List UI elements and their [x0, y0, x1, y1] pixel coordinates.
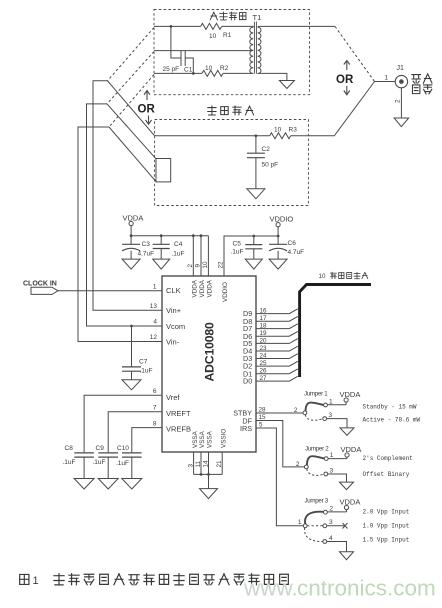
svg-text:3: 3 [187, 464, 194, 468]
wire solid diagonal Vcom to termination block [107, 104, 156, 159]
svg-text:4.7uF: 4.7uF [288, 249, 305, 256]
svg-text:20: 20 [260, 337, 268, 344]
svg-text:C9: C9 [96, 445, 105, 452]
svg-text:C8: C8 [65, 445, 74, 452]
svg-text:22: 22 [218, 261, 225, 269]
wire Vin- bottom (R2 lead) [154, 72, 202, 74]
wire J1 pin 2 to ground [395, 88, 402, 118]
wire R1 to T1 primary top [222, 25, 254, 28]
wire data D1 pin 26 [256, 369, 298, 374]
svg-text:VSSIO: VSSIO [220, 429, 227, 448]
svg-text:6: 6 [153, 388, 157, 395]
capacitor C9 .1uF [93, 445, 119, 479]
capacitor C1 25 pF [163, 26, 194, 73]
ground jumper1 [340, 428, 354, 436]
wire data D8 pin 17 [256, 316, 298, 321]
connector J1 input [375, 65, 408, 88]
connector CLOCK IN [23, 281, 58, 295]
wire Vref pin 6 [84, 395, 162, 453]
svg-text:C4: C4 [174, 241, 183, 248]
ground C10 [122, 479, 142, 490]
svg-text:2.0 Vpp Input: 2.0 Vpp Input [363, 509, 410, 516]
capacitor C10 .1uF [116, 445, 142, 479]
svg-text:Vin-: Vin- [166, 338, 180, 347]
svg-text:Jumper 2: Jumper 2 [305, 446, 329, 453]
wire CLOCK IN to CLK pin 1 [58, 290, 162, 292]
wire dashed OR link T1 to J1 [335, 26, 375, 81]
node junction VDDA pin2 [192, 234, 195, 237]
svg-text:9: 9 [195, 264, 202, 268]
wire VREFT pin 7 [108, 412, 162, 453]
ground C6 [269, 259, 287, 269]
svg-text:OR: OR [138, 104, 156, 116]
power VDDA terminal (Jumper 3) [340, 498, 361, 512]
power VDDIO terminal [270, 215, 294, 245]
svg-text:Vcom: Vcom [166, 322, 185, 331]
svg-text:10: 10 [274, 127, 282, 134]
wire VSSIO pin 21 [221, 452, 223, 474]
resistor R3 10 [270, 127, 297, 139]
wire data D9 pin 16 [256, 309, 298, 314]
svg-text:C6: C6 [288, 240, 297, 247]
svg-text:Vref: Vref [166, 393, 180, 402]
wire Vcom corner vertical [87, 104, 163, 326]
svg-text:8: 8 [153, 420, 157, 427]
svg-text:VDDIO: VDDIO [270, 215, 294, 224]
svg-text:21: 21 [216, 460, 223, 468]
svg-text:26: 26 [260, 368, 268, 375]
svg-text:D0: D0 [243, 377, 252, 386]
power VDDA terminal [123, 214, 144, 245]
wire OR link single-ended rail to Vin+ corner [93, 81, 162, 310]
wire VSSA pin 3 [193, 452, 195, 474]
wire jumper3 pin2 to VDDA [327, 511, 346, 513]
svg-text:1: 1 [330, 452, 334, 459]
svg-text:5: 5 [259, 422, 263, 429]
svg-text:Standby - 15 mW: Standby - 15 mW [363, 404, 417, 411]
jumper J1 (Jumper 1 STBY select) [294, 391, 333, 421]
wire single-ended input rail [155, 135, 270, 137]
wire VSSA pin 11 [200, 452, 202, 474]
svg-text:CLOCK IN: CLOCK IN [23, 281, 57, 288]
wire data D5 pin 20 [256, 339, 298, 344]
svg-text:3: 3 [329, 412, 333, 419]
wire VDDA pin 9 [200, 236, 202, 276]
wire IRS pin 5 [256, 428, 303, 526]
wire STBY pin 28 [256, 412, 303, 414]
node junction C4 tap [160, 234, 163, 237]
wire jumper1 pin1 to VDDA [327, 404, 346, 406]
svg-text:.1uF: .1uF [116, 460, 129, 467]
node junction C2 tap [255, 134, 258, 137]
svg-text:4.7uF: 4.7uF [138, 251, 155, 258]
svg-text:16: 16 [260, 308, 268, 315]
wire data D6 pin 19 [256, 331, 298, 336]
caption 图1 transformer single-ended to differential [20, 574, 289, 587]
node OR (input select left) [138, 91, 156, 125]
capacitor C4 .1uF [153, 236, 185, 259]
ground C3 [122, 259, 140, 269]
node OR (input select right) [336, 61, 354, 95]
wire data D7 pin 18 [256, 324, 298, 329]
wire solid diagonal corner to single-ended rail [108, 81, 155, 136]
wire VSSA pin 14 [208, 452, 210, 474]
wire DF pin 15 [256, 421, 305, 467]
svg-text:VDDA: VDDA [207, 279, 214, 297]
wire jumper1 pin3 to ground [327, 419, 347, 428]
ground T1 secondary [279, 81, 294, 89]
wire R2 to T1 primary bottom [223, 72, 253, 74]
wire VDDA pin 2 [192, 236, 194, 276]
svg-text:VDDIO: VDDIO [222, 282, 229, 302]
svg-text:10: 10 [202, 261, 209, 269]
svg-text:1.0 Vpp Input: 1.0 Vpp Input [363, 523, 410, 530]
svg-text:14: 14 [202, 460, 209, 468]
resistor R1 10 [201, 23, 232, 40]
svg-text:Vin+: Vin+ [166, 306, 182, 315]
svg-text:13: 13 [150, 303, 158, 310]
svg-text:4: 4 [329, 535, 333, 542]
resistor R2 10 [202, 65, 229, 76]
capacitor C7 .1uF [122, 326, 153, 380]
svg-text:VDDA: VDDA [123, 214, 144, 223]
ground C8 [74, 479, 94, 490]
svg-text:.1uF: .1uF [231, 249, 244, 256]
svg-text:Offset Binary: Offset Binary [363, 471, 410, 478]
svg-text:1.5 Vpp Input: 1.5 Vpp Input [363, 537, 410, 544]
wire VDDIO rail [224, 236, 278, 276]
svg-text:10: 10 [319, 273, 326, 280]
svg-text:Active - 78.6 mW: Active - 78.6 mW [363, 416, 421, 423]
svg-text:24: 24 [260, 353, 268, 360]
wire data D3 pin 24 [256, 354, 298, 359]
transformer T1 [250, 13, 261, 74]
svg-text:C2: C2 [262, 146, 271, 153]
svg-text:27: 27 [260, 375, 268, 382]
ground C7 [122, 380, 141, 390]
wire VDDA pin 10 [207, 236, 209, 276]
svg-text:.1uF: .1uF [63, 459, 76, 466]
svg-text:VSSA: VSSA [207, 430, 214, 448]
svg-text:C10: C10 [117, 445, 129, 452]
svg-text:10: 10 [205, 65, 213, 72]
wire dashed OR link diff box to Vcom corner [107, 52, 154, 104]
svg-text:R1: R1 [223, 32, 232, 39]
wire data D0 pin 27 [256, 376, 298, 381]
ground jumper2 [340, 482, 354, 490]
label 输入信号 input signal [412, 74, 432, 94]
termination block (single-ended OR node) [156, 159, 171, 182]
svg-text:1: 1 [153, 284, 157, 291]
wire VDDA rail [131, 235, 208, 237]
node junction VDDA/C3 [130, 234, 133, 237]
bus 10-bit data bus [300, 272, 371, 377]
wire T1 secondary bottom to ground [258, 73, 287, 80]
svg-text:ADC10080: ADC10080 [203, 322, 217, 381]
svg-text:18: 18 [260, 323, 268, 330]
wire data D4 pin 23 [256, 346, 298, 351]
svg-text:1: 1 [298, 519, 302, 526]
svg-text:VDDA: VDDA [340, 498, 361, 507]
power VDDA terminal (Jumper 1) [340, 390, 361, 405]
svg-text:4: 4 [153, 319, 157, 326]
node junction VDDIO/C6 [277, 235, 280, 238]
svg-text:1: 1 [33, 575, 39, 587]
svg-text:1: 1 [385, 75, 389, 82]
wire Vin- corner vertical [78, 127, 162, 342]
svg-text:C7: C7 [139, 359, 148, 366]
wire solid diagonal Vin- to termination block [109, 127, 156, 182]
jumper J3 (Jumper 3 IRS select) [298, 498, 334, 544]
ground C9 [98, 479, 118, 490]
svg-text:2: 2 [296, 461, 300, 468]
wire jumper2 pin1 to VDDA [328, 458, 347, 460]
capacitor C8 .1uF [63, 445, 94, 479]
wire jumper2 pin3 to ground [328, 474, 347, 482]
wire VREFB pin 8 [132, 428, 162, 453]
svg-text:CLK: CLK [166, 286, 181, 295]
jumper J2 (Jumper 2 DF select) [296, 446, 334, 476]
svg-text:C3: C3 [142, 241, 151, 248]
capacitor C3 4.7uF [122, 241, 154, 259]
node junction Vcom/C7 [130, 325, 133, 328]
svg-text:15: 15 [259, 414, 267, 421]
svg-text:25: 25 [260, 360, 268, 367]
svg-text:C1: C1 [184, 67, 193, 74]
svg-text:www.: www. [243, 576, 298, 601]
svg-text:7: 7 [153, 405, 157, 412]
svg-text:VSSA: VSSA [192, 430, 199, 448]
svg-text:17: 17 [260, 315, 268, 322]
capacitor C2 50 pF [247, 136, 278, 189]
power VDDA terminal (Jumper 2) [341, 445, 362, 459]
single-ended input dashed box (单端输入) [155, 106, 309, 206]
svg-text:Jumper 3: Jumper 3 [305, 498, 329, 505]
svg-text:OR: OR [336, 74, 354, 86]
svg-text:3: 3 [330, 468, 334, 475]
svg-text:25 pF: 25 pF [163, 66, 180, 73]
svg-text:.1uF: .1uF [93, 459, 106, 466]
svg-text:J1: J1 [397, 65, 405, 72]
svg-text:2: 2 [294, 407, 298, 414]
node junction VDDA pin9 [200, 234, 203, 237]
wire R3 out to OR diagonal [291, 82, 375, 136]
differential input dashed box (差分输入) [154, 10, 310, 95]
svg-text:11: 11 [195, 460, 202, 467]
node junction C1 right on bottom wire [192, 72, 195, 75]
svg-text:R2: R2 [220, 65, 229, 72]
node junction C1 left on top wire [170, 25, 173, 28]
svg-text:50 pF: 50 pF [262, 162, 279, 169]
svg-text:2: 2 [187, 264, 194, 268]
svg-text:10: 10 [209, 33, 217, 40]
svg-text:23: 23 [260, 345, 268, 352]
wire jumper3 pin4 to ground [327, 542, 347, 552]
wire data D2 pin 25 [256, 361, 298, 366]
wire VSS tie [194, 473, 223, 475]
svg-text:Jumper 1: Jumper 1 [304, 391, 328, 398]
svg-text:.1uF: .1uF [172, 251, 185, 258]
svg-text:19: 19 [260, 330, 268, 337]
svg-text:cntronics.com: cntronics.com [297, 576, 436, 601]
node junction C5 tap [252, 235, 255, 238]
ground J1 [394, 118, 409, 127]
wire VSS to ground [208, 474, 210, 488]
wire jumper3 pin3 no-connect [327, 523, 348, 529]
wire Vin+ top (R1 lead) [154, 25, 201, 27]
svg-text:T1: T1 [253, 13, 262, 22]
node junction VSS [200, 473, 203, 476]
svg-text:28: 28 [259, 407, 267, 414]
svg-text:VDDA: VDDA [192, 279, 199, 297]
wire T1 secondary top out [258, 25, 335, 27]
svg-text:VDDA: VDDA [199, 279, 206, 297]
ground jumper3 [340, 552, 354, 560]
svg-text:12: 12 [150, 334, 158, 341]
ground VSS [200, 489, 218, 499]
svg-text:VREFT: VREFT [166, 409, 191, 418]
svg-text:3: 3 [329, 519, 333, 526]
svg-text:2: 2 [395, 99, 402, 103]
ground C5 [245, 259, 262, 269]
wire center tap (Vcom) [154, 50, 253, 52]
ground C4 [153, 259, 170, 269]
wire dashed OR link diff box to Vin+ corner [108, 28, 155, 81]
ground C2 [247, 189, 265, 199]
svg-text:IRS: IRS [240, 424, 252, 433]
svg-text:C5: C5 [233, 241, 242, 248]
svg-text:VDDA: VDDA [340, 390, 361, 399]
wire dashed OR link diff box to Vin- corner [109, 75, 154, 128]
capacitor C5 .1uF [231, 236, 263, 259]
svg-text:.1uF: .1uF [140, 368, 153, 375]
capacitor C6 4.7uF [269, 240, 304, 259]
svg-text:VDDA: VDDA [341, 445, 362, 454]
op-amp U1 ADC10080 IC body [162, 276, 256, 452]
svg-text:2's Complement: 2's Complement [363, 455, 413, 462]
svg-text:VSSA: VSSA [199, 430, 206, 448]
svg-text:VREFB: VREFB [166, 425, 191, 434]
svg-text:R3: R3 [289, 127, 298, 134]
